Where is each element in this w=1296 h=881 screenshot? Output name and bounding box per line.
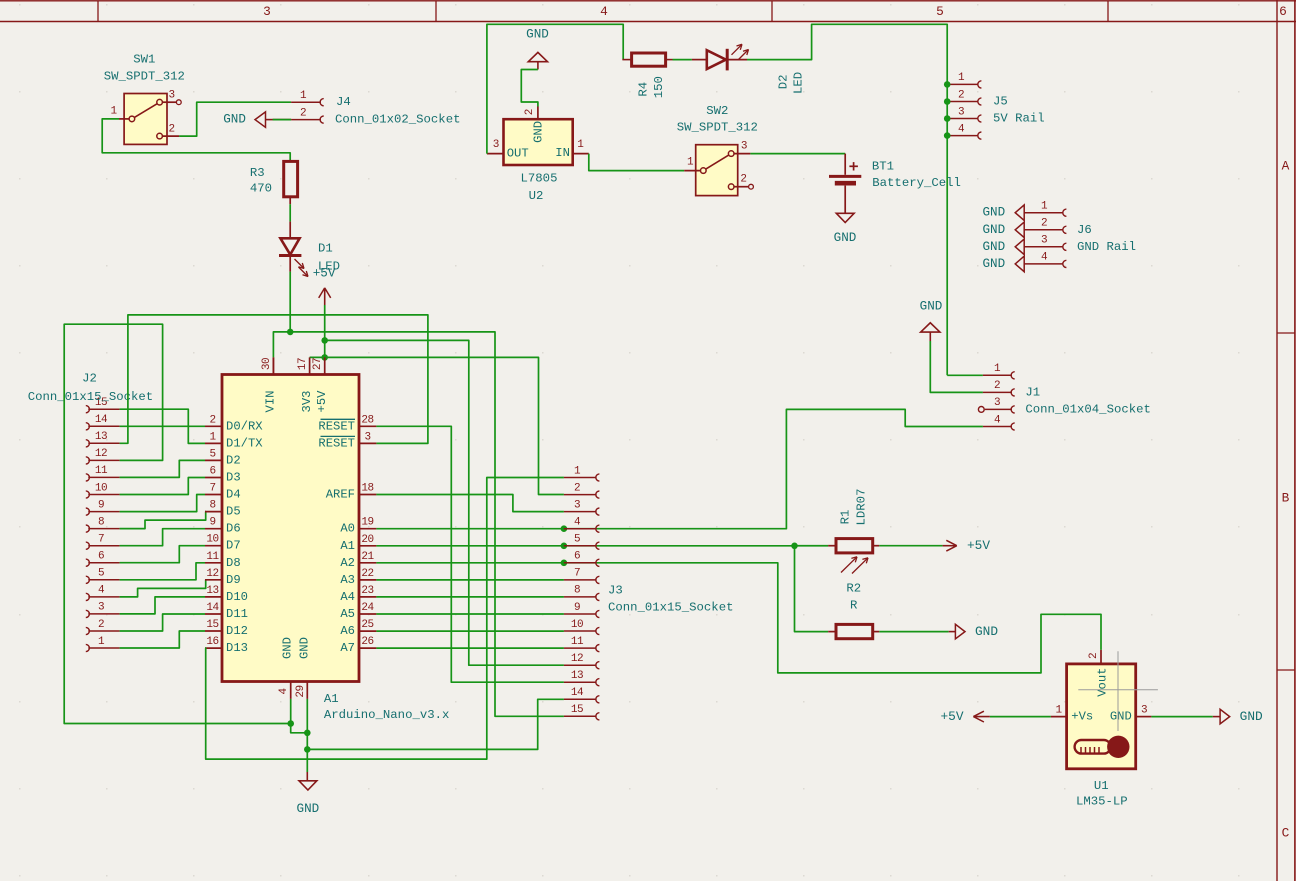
svg-text:J5: J5 (993, 95, 1008, 109)
global label +5V right of R1 (943, 538, 991, 553)
connector J1 (978, 363, 1150, 430)
svg-text:3: 3 (1141, 704, 1147, 716)
svg-text:23: 23 (361, 585, 373, 597)
svg-text:R2: R2 (846, 582, 861, 596)
wire RESET28 to J3 pin13 (376, 426, 564, 682)
microcontroller A1 Arduino Nano (205, 357, 449, 722)
wire +5V symbol to +5V pin (324, 305, 326, 357)
svg-text:12: 12 (571, 653, 583, 665)
junction A1 at J3 pin5 (561, 543, 568, 550)
svg-text:4: 4 (1041, 252, 1048, 264)
svg-text:5V Rail: 5V Rail (993, 112, 1045, 126)
wire J2 pin6 to D7 (120, 546, 205, 563)
wire A6 to J3 pin10 (376, 630, 564, 632)
svg-text:J2: J2 (82, 372, 97, 386)
svg-text:BT1: BT1 (872, 160, 894, 174)
svg-text:L7805: L7805 (521, 171, 558, 185)
svg-text:9: 9 (209, 517, 215, 529)
svg-text:13: 13 (571, 670, 583, 682)
svg-text:7: 7 (98, 534, 104, 546)
svg-text:D2: D2 (777, 75, 791, 90)
wire A4 to J3 pin8 (376, 596, 564, 598)
svg-text:LDR07: LDR07 (855, 489, 869, 526)
svg-text:A3: A3 (340, 573, 355, 587)
svg-text:1: 1 (687, 157, 694, 169)
svg-text:D5: D5 (226, 505, 241, 519)
power symbol GND below A1 (297, 772, 320, 816)
wire GND to ground symbol (306, 749, 308, 772)
svg-text:30: 30 (261, 358, 273, 370)
svg-text:U2: U2 (529, 189, 544, 203)
svg-text:12: 12 (206, 568, 218, 580)
svg-text:RESET: RESET (318, 419, 355, 433)
global label +5V left of U1 (940, 709, 989, 724)
svg-text:A7: A7 (340, 641, 355, 655)
svg-text:3: 3 (1041, 235, 1047, 247)
wire R2 to GND label (879, 631, 948, 633)
svg-text:6: 6 (209, 466, 215, 478)
svg-text:B: B (1282, 491, 1290, 506)
svg-text:11: 11 (95, 465, 108, 477)
svg-text:5: 5 (98, 568, 104, 580)
svg-text:4: 4 (994, 414, 1001, 426)
wire U2 IN to SW2 pin1 (589, 154, 684, 171)
wire J2 pin3 to D10 (120, 597, 205, 614)
svg-text:J1: J1 (1025, 385, 1040, 399)
power flag GND at J4 pin2 (223, 112, 272, 127)
svg-text:8: 8 (209, 500, 215, 512)
svg-text:22: 22 (361, 568, 373, 580)
wire J2 pin4 to D9 (120, 580, 206, 597)
wire J2 pin15 to D1/TX (120, 409, 205, 443)
switch SW2 (677, 104, 758, 196)
svg-text:2: 2 (958, 89, 964, 101)
svg-text:Arduino_Nano_v3.x: Arduino_Nano_v3.x (324, 708, 449, 722)
wire R1 to +5V label (879, 545, 942, 547)
svg-text:1: 1 (98, 636, 105, 648)
svg-text:D13: D13 (226, 641, 248, 655)
svg-text:13: 13 (206, 585, 218, 597)
svg-text:D7: D7 (226, 539, 241, 553)
svg-text:1: 1 (958, 72, 965, 84)
svg-text:7: 7 (574, 568, 580, 580)
LED D1 (279, 222, 340, 277)
svg-text:5: 5 (936, 4, 944, 19)
svg-text:3: 3 (574, 499, 580, 511)
svg-text:14: 14 (206, 602, 219, 614)
wire GND4 to GND29 (291, 724, 308, 733)
svg-text:A6: A6 (340, 624, 355, 638)
svg-text:GND: GND (982, 257, 1005, 271)
svg-text:17: 17 (297, 358, 309, 370)
svg-text:2: 2 (994, 380, 1000, 392)
svg-text:150: 150 (652, 76, 666, 98)
svg-text:3: 3 (994, 397, 1000, 409)
svg-text:D9: D9 (226, 573, 241, 587)
svg-text:LED: LED (792, 72, 806, 94)
svg-text:18: 18 (361, 483, 373, 495)
svg-text:+5V: +5V (967, 538, 990, 553)
svg-text:3V3: 3V3 (300, 391, 314, 413)
svg-text:14: 14 (95, 414, 108, 426)
svg-text:Conn_01x02_Socket: Conn_01x02_Socket (335, 113, 460, 127)
svg-text:GND: GND (281, 637, 295, 659)
wire GND to U2 pin2 (537, 62, 539, 70)
svg-text:D3: D3 (226, 471, 241, 485)
svg-text:1: 1 (110, 106, 117, 118)
svg-text:+5V: +5V (315, 390, 329, 413)
wire J2 pin13 to RESET pin3 (120, 315, 428, 444)
power symbol GND below BT1 (834, 213, 857, 245)
svg-text:+Vs: +Vs (1071, 710, 1093, 724)
svg-text:15: 15 (206, 619, 218, 631)
wire GND pin4 net (290, 699, 292, 724)
svg-text:3: 3 (958, 106, 964, 118)
svg-text:GND: GND (920, 300, 943, 314)
svg-text:4: 4 (98, 585, 105, 597)
svg-text:R1: R1 (838, 510, 852, 525)
wire D1 to VIN junction (289, 272, 291, 332)
svg-text:GND: GND (834, 231, 857, 245)
svg-text:20: 20 (361, 534, 373, 546)
junction A1 divider node (791, 543, 798, 550)
svg-text:GND: GND (526, 27, 549, 41)
svg-text:470: 470 (250, 181, 272, 195)
svg-text:GND: GND (297, 802, 320, 816)
svg-text:3: 3 (263, 4, 271, 19)
svg-text:2: 2 (98, 619, 104, 631)
svg-text:4: 4 (600, 4, 608, 19)
wire +5V label to U1 pin1 (990, 716, 1051, 718)
junction GND pin29 (304, 730, 311, 737)
svg-text:GND: GND (982, 206, 1005, 220)
svg-text:13: 13 (95, 431, 107, 443)
svg-text:U1: U1 (1094, 779, 1109, 793)
svg-text:LM35-LP: LM35-LP (1076, 795, 1128, 809)
power symbol +5V near Arduino (313, 267, 336, 305)
svg-text:R4: R4 (637, 82, 651, 97)
wire A1 to divider (376, 545, 828, 547)
wire A3 to J3 pin7 (376, 579, 564, 581)
wire R3 to D1 (289, 204, 291, 221)
wire A1 node to R1 (795, 545, 829, 547)
svg-text:D11: D11 (226, 607, 248, 621)
wire A0 to J1 pin4 (376, 409, 983, 528)
svg-text:15: 15 (571, 704, 583, 716)
cursor crosshair (1078, 651, 1158, 731)
svg-text:27: 27 (312, 358, 324, 370)
wire J2 pin1 to D12 (120, 631, 205, 648)
wire J2 pin9 to D4 (120, 495, 205, 512)
wire divider to R2 (795, 546, 829, 632)
svg-text:19: 19 (361, 517, 373, 529)
connector J6 GND rail (1024, 201, 1136, 268)
svg-text:Vout: Vout (1096, 668, 1110, 697)
battery BT1 (829, 154, 961, 214)
wire U2 OUT to R4 (487, 24, 623, 153)
wire U1 pin3 to GND label (1151, 716, 1212, 718)
wire J2 pin8 to D5 (120, 512, 206, 529)
svg-text:1: 1 (574, 465, 581, 477)
svg-text:SW2: SW2 (706, 104, 728, 118)
svg-text:GND: GND (975, 624, 998, 639)
svg-text:OUT: OUT (507, 146, 529, 160)
svg-text:2: 2 (300, 107, 306, 119)
wire A2 to U1 Vout (376, 563, 1101, 673)
connector J3 (564, 465, 734, 720)
wire A5 to J3 pin9 (376, 613, 564, 615)
svg-text:GND: GND (1240, 709, 1263, 724)
svg-text:SW_SPDT_312: SW_SPDT_312 (104, 70, 185, 84)
junction J5 pins on 5V rail (944, 81, 951, 88)
sensor U1 LM35-LP (1051, 650, 1152, 809)
svg-text:9: 9 (98, 499, 104, 511)
junction GND pin4 (287, 720, 294, 727)
svg-text:2: 2 (1088, 653, 1100, 659)
wire AREF to J3 pin3 (376, 495, 564, 512)
svg-text:10: 10 (571, 619, 583, 631)
svg-text:5: 5 (574, 534, 580, 546)
svg-text:A2: A2 (340, 556, 355, 570)
svg-text:GND: GND (1110, 710, 1132, 724)
wire J2 pin11 to D2 (120, 460, 205, 477)
svg-text:C: C (1282, 826, 1290, 841)
svg-text:2: 2 (524, 109, 536, 115)
svg-text:25: 25 (361, 619, 373, 631)
svg-text:J3: J3 (608, 584, 623, 598)
svg-text:2: 2 (168, 123, 174, 135)
junction +5V branch1 (321, 337, 328, 344)
svg-text:2: 2 (1041, 218, 1047, 230)
svg-text:8: 8 (574, 585, 580, 597)
svg-text:16: 16 (206, 636, 218, 648)
svg-text:3: 3 (98, 602, 104, 614)
svg-text:A4: A4 (340, 590, 355, 604)
switch SW1 (104, 53, 185, 145)
svg-text:D4: D4 (226, 488, 241, 502)
svg-text:+5V: +5V (940, 709, 963, 724)
svg-text:26: 26 (361, 636, 373, 648)
wire J2 pin5 to D8 (120, 563, 205, 580)
svg-text:Conn_01x15_Socket: Conn_01x15_Socket (608, 600, 733, 614)
svg-text:4: 4 (958, 123, 965, 135)
svg-text:D2: D2 (226, 453, 241, 467)
svg-text:D0/RX: D0/RX (226, 419, 263, 433)
resistor R4 (632, 53, 667, 98)
power symbol GND at J1 pin2 (920, 300, 943, 342)
svg-text:14: 14 (571, 687, 584, 699)
power flags GND at J6 (982, 205, 1024, 272)
wire J2 pin12 to GND bus (64, 324, 291, 723)
svg-text:1: 1 (1041, 201, 1048, 213)
svg-text:A: A (1282, 159, 1290, 174)
junction 3V3/+5V branch2 (321, 354, 328, 361)
svg-text:J6: J6 (1077, 223, 1092, 237)
svg-text:3: 3 (168, 90, 174, 102)
junction GND bottom (304, 746, 311, 753)
svg-text:3: 3 (493, 139, 499, 151)
svg-text:VIN: VIN (264, 391, 278, 413)
wire R4 to D2 (666, 59, 673, 61)
svg-text:9: 9 (574, 602, 580, 614)
svg-text:6: 6 (1279, 4, 1287, 19)
wire D13 to J3 pin1 (205, 478, 564, 760)
connector J4 (273, 90, 461, 127)
junction A0 at J3 pin4 (561, 525, 568, 532)
svg-text:2: 2 (574, 482, 580, 494)
svg-text:D1/TX: D1/TX (226, 436, 263, 450)
svg-text:J4: J4 (336, 95, 351, 109)
svg-text:2: 2 (209, 414, 215, 426)
svg-text:1: 1 (577, 139, 584, 151)
wire GND flag to J4 pin2 (273, 119, 292, 121)
svg-text:11: 11 (571, 636, 584, 648)
svg-text:28: 28 (361, 414, 373, 426)
svg-text:GND: GND (982, 240, 1005, 254)
svg-text:A1: A1 (324, 692, 339, 706)
svg-text:3: 3 (741, 141, 747, 153)
svg-text:2: 2 (740, 174, 746, 186)
svg-text:6: 6 (574, 551, 580, 563)
svg-text:4: 4 (574, 517, 581, 529)
svg-text:SW1: SW1 (133, 53, 155, 67)
svg-text:IN: IN (555, 146, 570, 160)
wire SW2 pin3 to BT1 (750, 153, 845, 155)
wire SW1 pin2 to J4 pin1 (179, 102, 291, 136)
wire J2 pin10 to D3 (120, 478, 205, 495)
svg-text:6: 6 (98, 551, 104, 563)
junction A2 at J3 pin6 (561, 560, 568, 567)
wire +5V to J3 pin12 (325, 340, 564, 665)
svg-text:D10: D10 (226, 590, 248, 604)
svg-text:7: 7 (209, 483, 215, 495)
wire SW1 pin1 to R3 (102, 119, 290, 161)
svg-text:Conn_01x04_Socket: Conn_01x04_Socket (1025, 402, 1150, 416)
svg-text:AREF: AREF (326, 488, 355, 502)
svg-text:A5: A5 (340, 607, 355, 621)
resistor R2 (828, 582, 879, 639)
junction VIN-D1 (287, 329, 294, 336)
svg-text:GND: GND (532, 121, 546, 143)
wire J2 pin14 to D0/RX (120, 425, 205, 427)
svg-text:Battery_Cell: Battery_Cell (872, 176, 961, 190)
svg-text:+5V: +5V (313, 267, 336, 281)
svg-text:21: 21 (361, 551, 374, 563)
svg-text:R: R (850, 599, 858, 613)
svg-text:12: 12 (95, 448, 107, 460)
LED D2 (692, 44, 806, 94)
svg-text:GND: GND (223, 113, 246, 127)
svg-text:3: 3 (364, 431, 370, 443)
svg-text:D1: D1 (318, 242, 333, 256)
svg-text:R3: R3 (250, 166, 265, 180)
wire J2 pin7 to D6 (120, 529, 205, 546)
svg-text:29: 29 (295, 685, 307, 697)
svg-text:A0: A0 (340, 522, 355, 536)
wire VIN net across top (273, 332, 564, 716)
svg-text:1: 1 (1055, 704, 1062, 716)
svg-text:10: 10 (95, 482, 107, 494)
svg-text:24: 24 (361, 602, 374, 614)
svg-text:8: 8 (98, 516, 104, 528)
wire A7 to J3 pin11 (376, 647, 564, 649)
grid dots (19, 4, 21, 6)
svg-text:1: 1 (209, 431, 216, 443)
wire 3V3 to J3 pin2 (310, 357, 564, 494)
wire J2 pin2 to D11 (120, 614, 205, 631)
svg-text:11: 11 (206, 551, 219, 563)
svg-text:10: 10 (206, 534, 218, 546)
resistor R1 LDR07 (828, 489, 879, 574)
svg-text:D6: D6 (226, 522, 241, 536)
svg-text:D12: D12 (226, 624, 248, 638)
wire 5V rail to J1 pin1 (947, 374, 983, 376)
svg-text:5: 5 (209, 448, 215, 460)
svg-text:GND: GND (982, 223, 1005, 237)
wire GND to J1 pin2 (930, 341, 983, 392)
connector J2 (28, 372, 153, 652)
svg-text:4: 4 (278, 688, 290, 695)
wire VIN stub (272, 357, 274, 374)
svg-text:SW_SPDT_312: SW_SPDT_312 (677, 120, 758, 134)
resistor R3 (250, 161, 298, 204)
svg-text:GND Rail: GND Rail (1077, 240, 1136, 254)
svg-text:RESET: RESET (318, 436, 355, 450)
power symbol GND above U2 (526, 27, 549, 61)
global label GND right of U1 (1213, 709, 1263, 724)
svg-text:D8: D8 (226, 556, 241, 570)
regulator U2 L7805 (487, 107, 589, 204)
wire GND to J3 pin14 (307, 699, 564, 749)
connector J5 (947, 72, 1044, 139)
global label GND right of R2 (949, 624, 999, 639)
svg-text:1: 1 (300, 90, 307, 102)
wire GND pin29 net (306, 699, 308, 733)
svg-text:Conn_01x15_Socket: Conn_01x15_Socket (28, 390, 153, 404)
svg-text:1: 1 (994, 363, 1001, 375)
svg-text:GND: GND (297, 637, 311, 659)
wire D2 to 5V rail (747, 24, 947, 375)
svg-text:A1: A1 (340, 539, 355, 553)
